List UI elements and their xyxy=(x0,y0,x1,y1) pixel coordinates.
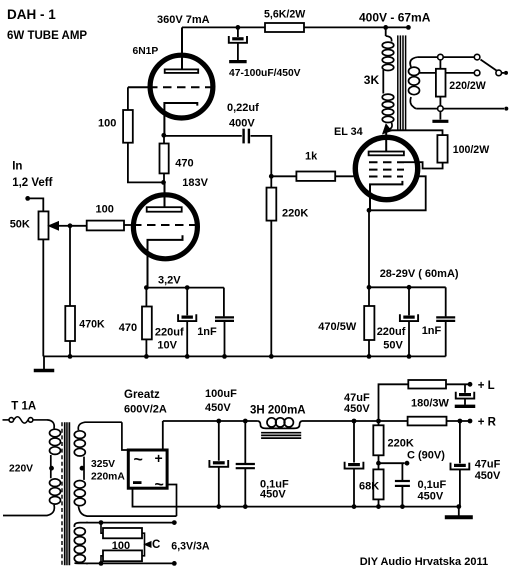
capacitor 47uF 450V left xyxy=(353,421,355,463)
svg-text:100: 100 xyxy=(98,118,116,130)
svg-text:1k: 1k xyxy=(305,151,318,163)
svg-text:100/2W: 100/2W xyxy=(453,144,490,156)
node primary winding junction xyxy=(49,466,54,471)
wire g2 to 100/2W resistor xyxy=(404,162,443,168)
wire 100 to lower grid xyxy=(124,224,133,226)
svg-text:450V: 450V xyxy=(260,489,286,501)
terminal + L xyxy=(468,382,473,387)
wire secondary bottom to bridge ~ xyxy=(167,485,176,517)
svg-text:450V: 450V xyxy=(205,402,231,414)
wire pot bottom to ground xyxy=(42,239,44,356)
wire cathode to 28-29V node xyxy=(368,210,370,287)
svg-text:220K: 220K xyxy=(388,438,414,450)
svg-text:28-29V ( 60mA): 28-29V ( 60mA) xyxy=(380,268,459,280)
svg-text:6,3V/3A: 6,3V/3A xyxy=(171,541,210,553)
output transformer primary 3K upper half xyxy=(385,27,387,36)
resistor 470/5W cathode xyxy=(368,287,370,306)
node secondary winding junction xyxy=(80,466,85,471)
svg-text:1nF: 1nF xyxy=(422,325,442,337)
wire heater top to humdinger xyxy=(86,522,174,524)
svg-text:50V: 50V xyxy=(383,340,403,352)
speaker terminal top tap xyxy=(417,56,437,58)
node junction OT primary top xyxy=(383,25,388,30)
capacitor 47uF 450V right xyxy=(459,421,461,463)
anode connection arrow xyxy=(389,123,393,130)
resistor 470 lower cathode xyxy=(145,288,147,307)
wire 400V line from 5,6K to output transformer xyxy=(304,26,408,28)
svg-text:600V/2A: 600V/2A xyxy=(124,404,167,416)
output transformer primary lower half xyxy=(382,70,384,94)
svg-text:In: In xyxy=(12,161,22,173)
wire wiper to 100 grid resistor xyxy=(70,225,87,227)
resistor 68K divider xyxy=(373,469,383,499)
capacitor 1nF bypass xyxy=(223,288,225,317)
svg-text:0,1uF: 0,1uF xyxy=(418,479,447,491)
svg-text:400V: 400V xyxy=(229,118,255,130)
resistor 100 humdinger upper xyxy=(101,523,103,534)
svg-text:470: 470 xyxy=(119,322,137,334)
ground symbol PSU xyxy=(458,507,460,516)
svg-text:47uF: 47uF xyxy=(475,459,501,471)
capacitor 47-100uF/450V xyxy=(237,27,239,37)
node 183V xyxy=(161,180,166,185)
svg-text:+ L: + L xyxy=(478,380,495,392)
wire secondary mid tap xyxy=(420,72,436,74)
svg-text:220/2W: 220/2W xyxy=(449,80,486,92)
wire 100/2W top to anode node xyxy=(386,130,442,135)
svg-text:+ R: + R xyxy=(478,417,497,429)
svg-text:3,2V: 3,2V xyxy=(158,275,181,287)
wire input to potentiometer xyxy=(28,198,44,211)
capacitor 220uf 50V bypass xyxy=(408,287,410,315)
terminal + R xyxy=(468,419,473,424)
svg-text:6N1P: 6N1P xyxy=(133,46,159,57)
resistor 100 lower grid stopper xyxy=(87,221,124,231)
bridge rectifier Greatz 600V/2A xyxy=(128,450,167,488)
B+ rail after rectifier xyxy=(163,420,258,422)
node 100uF tap xyxy=(216,419,221,424)
svg-text:47-100uF/450V: 47-100uF/450V xyxy=(229,68,301,79)
B+ rail after choke xyxy=(302,420,408,422)
tube V1b 6N1P lower triode xyxy=(133,182,199,287)
tube V2 EL34 xyxy=(355,130,417,210)
svg-text:Greatz: Greatz xyxy=(124,389,160,401)
ground symbol secondary xyxy=(439,111,441,119)
svg-text:220K: 220K xyxy=(282,208,308,220)
tube V1a 6N1P upper triode xyxy=(128,27,215,135)
resistor 180/3W right channel xyxy=(408,417,447,426)
heater winding 6,3V xyxy=(74,523,88,527)
svg-text:68K: 68K xyxy=(359,481,379,493)
node 3,2V cathode xyxy=(144,285,149,290)
node cathode / g3 junction xyxy=(367,208,372,213)
capacitor 0,1uF 450V right xyxy=(401,463,403,480)
wire secondary bottom xyxy=(416,108,437,110)
svg-text:3H 200mA: 3H 200mA xyxy=(250,405,306,417)
wire 360V supply line to 6N1P plate xyxy=(182,26,265,28)
wire to +R terminal xyxy=(447,420,469,422)
node 220uf tap xyxy=(185,285,190,290)
wire 100 resistor to 183V node xyxy=(128,143,164,183)
wire heater bottom xyxy=(86,562,174,564)
node 220uf 50V tap xyxy=(407,285,412,290)
wire to +L terminal xyxy=(446,383,468,385)
svg-text:470/5W: 470/5W xyxy=(318,321,357,333)
wire bridge - to ground rail xyxy=(133,488,459,506)
resistor 470 SRPP cathode xyxy=(163,135,165,143)
svg-text:400V - 67mA: 400V - 67mA xyxy=(359,11,431,25)
wire top tap to switch xyxy=(443,56,474,58)
svg-text:DIY Audio Hrvatska 2011: DIY Audio Hrvatska 2011 xyxy=(360,556,488,568)
svg-text:360V 7mA: 360V 7mA xyxy=(157,14,210,26)
svg-text:C (90V): C (90V) xyxy=(407,450,445,462)
resistor 5,6K/2W xyxy=(265,23,304,32)
node dots on PSU ground rail xyxy=(216,504,221,509)
svg-text:450V: 450V xyxy=(475,470,501,482)
node 0,1uF tap mid xyxy=(243,419,248,424)
arrow C heater reference xyxy=(145,542,152,548)
mains transformer core xyxy=(61,422,63,565)
svg-text:6W TUBE AMP: 6W TUBE AMP xyxy=(7,30,87,42)
capacitor 0,1uF 450V mid xyxy=(244,421,246,463)
svg-text:470K: 470K xyxy=(79,319,105,331)
node junction 47-100uF tap xyxy=(236,25,241,30)
node 47uF tap left xyxy=(352,419,357,424)
svg-text:~: ~ xyxy=(134,452,143,469)
svg-text:183V: 183V xyxy=(182,177,208,189)
svg-text:EL 34: EL 34 xyxy=(334,126,363,138)
wire riser to +L line xyxy=(379,384,409,421)
wire 1k to EL34 grid xyxy=(335,175,353,177)
output transformer core xyxy=(397,35,399,129)
resistor 180/3W left channel xyxy=(408,380,446,389)
svg-text:0,22uf: 0,22uf xyxy=(227,102,259,114)
wire cathode node to bypass caps xyxy=(146,287,224,289)
choke 3H 200mA xyxy=(258,421,302,428)
svg-text:T 1A: T 1A xyxy=(11,400,36,412)
resistor 100 upper grid stopper xyxy=(127,87,129,110)
svg-text:1nF: 1nF xyxy=(197,326,217,338)
capacitor 100uF 450V filter xyxy=(218,421,220,461)
node C 90V divider junction xyxy=(378,455,380,469)
svg-text:450V: 450V xyxy=(418,491,444,503)
wire bridge + to B+ rail xyxy=(162,421,164,450)
svg-text:100: 100 xyxy=(112,540,130,552)
svg-text:220uf: 220uf xyxy=(377,326,406,338)
wire g3 to cathode xyxy=(369,176,426,210)
svg-text:100: 100 xyxy=(96,204,114,216)
wire divider junction to C terminal xyxy=(379,462,405,464)
resistor 100/2W screen xyxy=(437,135,447,163)
ground symbol amp xyxy=(43,356,45,369)
mains transformer primary 220V xyxy=(47,420,54,429)
svg-text:5,6K/2W: 5,6K/2W xyxy=(264,9,305,21)
node +L riser junction xyxy=(376,419,381,424)
output transformer secondary xyxy=(410,57,417,67)
wire humdinger junction C xyxy=(142,533,145,556)
resistor 220/2W secondary load xyxy=(439,60,441,69)
input terminal xyxy=(25,196,30,201)
resistor 1k grid stopper EL34 xyxy=(271,175,296,177)
resistor 220K divider xyxy=(378,421,380,425)
svg-text:3K: 3K xyxy=(364,73,380,87)
capacitor 1nF EL34 bypass xyxy=(445,287,447,316)
svg-text:50K: 50K xyxy=(10,219,30,231)
capacitor 0,22uf 400V coupling xyxy=(164,135,242,137)
node upper cathode / coupling tap xyxy=(161,133,166,138)
capacitor 220uf 10V bypass xyxy=(186,288,188,316)
svg-text:C: C xyxy=(152,539,160,551)
wire 220K to ground rail xyxy=(270,221,272,357)
capacitor +L decoupling xyxy=(464,384,466,393)
svg-text:100uF: 100uF xyxy=(205,388,237,400)
ground rail amplifier xyxy=(43,355,445,357)
svg-text:DAH - 1: DAH - 1 xyxy=(7,7,56,22)
wire secondary top to bridge ~ xyxy=(122,422,128,450)
svg-text:220V: 220V xyxy=(9,463,33,474)
resistor 100 humdinger lower xyxy=(101,556,103,564)
node wiper junction xyxy=(68,223,73,228)
node 28-29V cathode network xyxy=(367,285,372,290)
wiper arrow of 50K xyxy=(54,225,70,227)
svg-text:~: ~ xyxy=(155,477,164,494)
node terminal 400V end xyxy=(406,25,411,30)
wire cathode node to right caps xyxy=(369,286,446,288)
resistor 470K grid leak xyxy=(69,226,71,306)
svg-text:1,2 Veff: 1,2 Veff xyxy=(12,177,52,189)
node 47uF tap right xyxy=(458,419,463,424)
svg-text:450V: 450V xyxy=(344,403,370,415)
switch selector xyxy=(496,70,502,76)
svg-text:+: + xyxy=(155,450,163,466)
mains transformer secondary 325V xyxy=(78,422,122,430)
node 1k / 220K junction xyxy=(269,174,274,179)
svg-text:10V: 10V xyxy=(157,340,177,352)
svg-text:470: 470 xyxy=(175,158,193,170)
node dots on amp ground rail xyxy=(68,354,73,359)
svg-text:220uf: 220uf xyxy=(155,327,184,339)
resistor 220K grid leak xyxy=(270,176,272,187)
svg-text:220mA: 220mA xyxy=(91,472,125,483)
svg-text:180/3W: 180/3W xyxy=(411,398,450,410)
svg-text:325V: 325V xyxy=(91,459,115,470)
potentiometer 50K xyxy=(39,211,49,239)
